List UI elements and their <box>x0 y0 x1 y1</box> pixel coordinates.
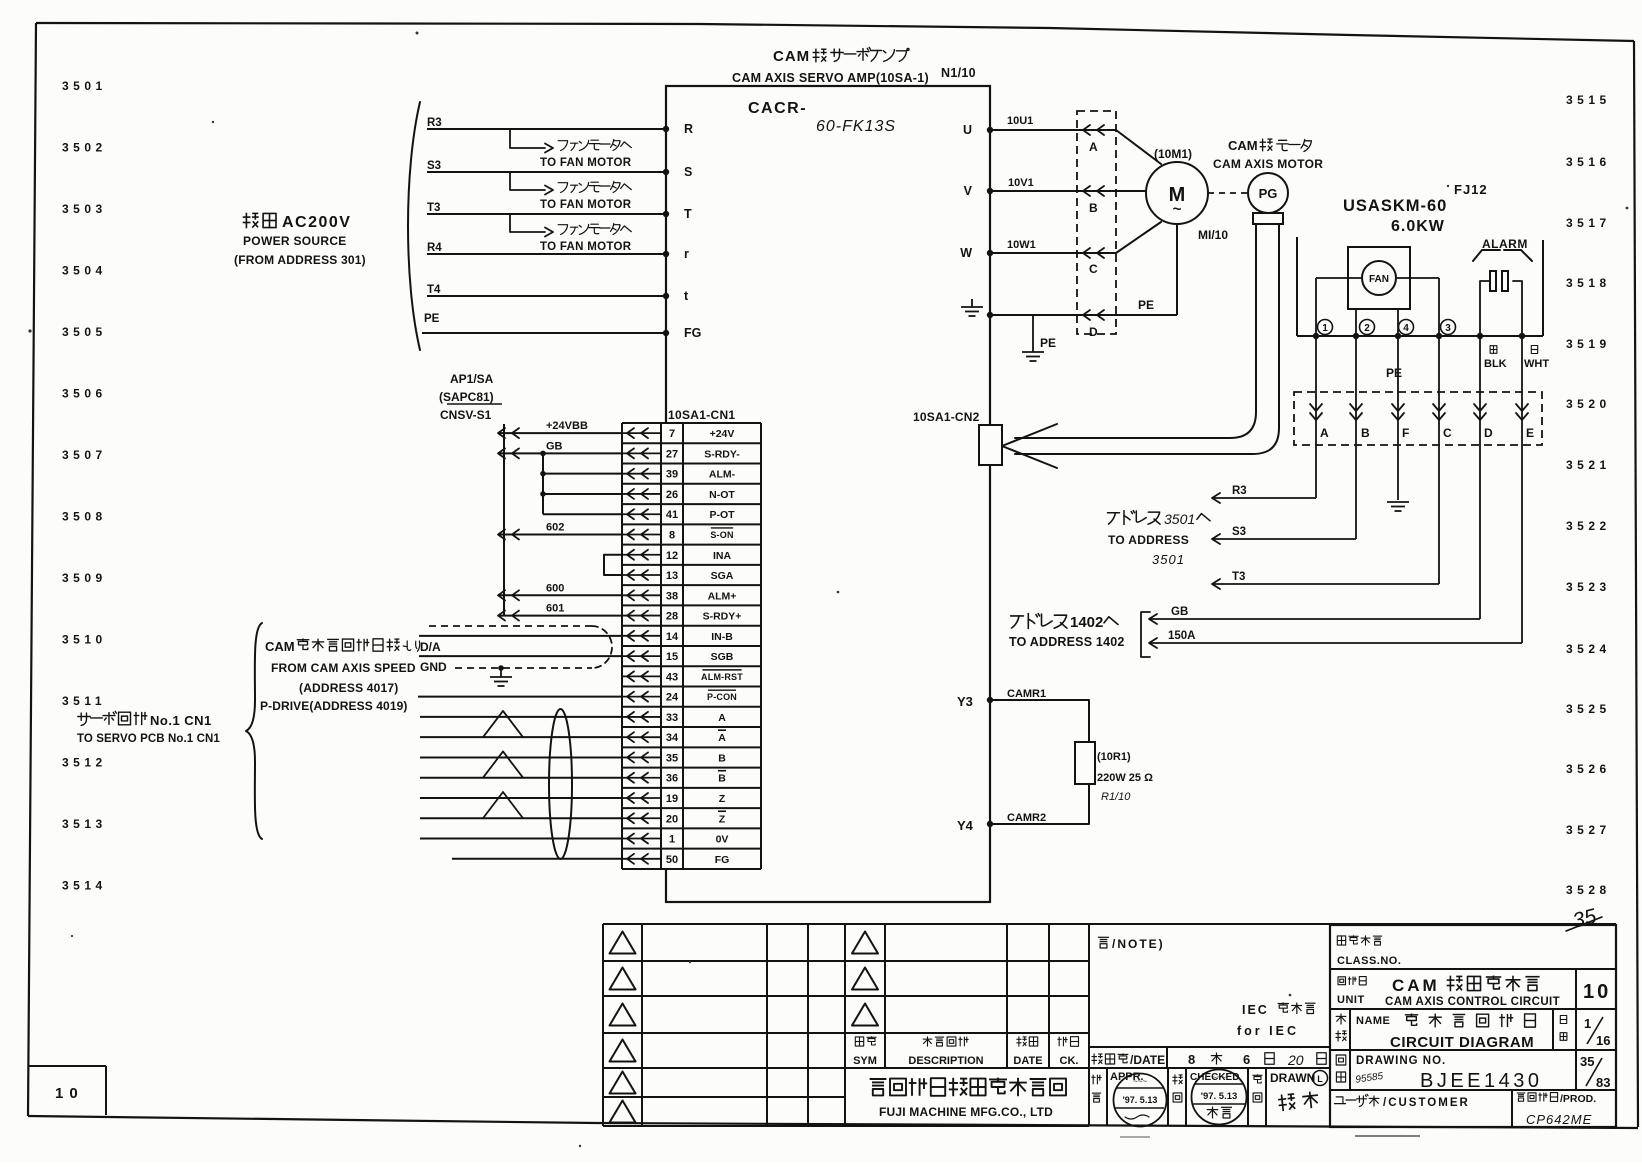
svg-text:1402: 1402 <box>1070 614 1103 631</box>
svg-text:PE: PE <box>1386 366 1402 380</box>
svg-text:P-CON: P-CON <box>707 692 737 702</box>
svg-text:T4: T4 <box>427 284 441 296</box>
svg-text:CAM: CAM <box>1228 138 1258 153</box>
svg-text:3501: 3501 <box>1152 552 1185 567</box>
svg-text:1: 1 <box>1584 1016 1591 1031</box>
svg-text:GB: GB <box>1171 606 1188 618</box>
svg-text:3501: 3501 <box>62 79 107 93</box>
svg-text:1: 1 <box>1322 323 1328 334</box>
svg-text:/CUSTOMER: /CUSTOMER <box>1383 1097 1470 1109</box>
svg-text:DESCRIPTION: DESCRIPTION <box>908 1055 983 1067</box>
svg-text:UNIT: UNIT <box>1337 994 1365 1006</box>
svg-text:IN-B: IN-B <box>711 631 733 643</box>
svg-text:B: B <box>718 752 726 764</box>
svg-text:50: 50 <box>666 854 678 866</box>
svg-text:15: 15 <box>666 651 678 663</box>
svg-text:8: 8 <box>669 529 675 541</box>
svg-text:150A: 150A <box>1168 630 1196 642</box>
svg-text:1: 1 <box>669 834 675 846</box>
svg-text:L: L <box>1317 1074 1323 1084</box>
svg-text:(10R1): (10R1) <box>1097 751 1131 763</box>
svg-text:INA: INA <box>713 550 732 562</box>
svg-text:DRAWN: DRAWN <box>1270 1071 1315 1085</box>
svg-text:D/A: D/A <box>420 640 441 654</box>
svg-text:28: 28 <box>666 611 678 623</box>
svg-text:N1/10: N1/10 <box>941 66 976 80</box>
svg-text:B: B <box>718 773 726 785</box>
svg-text:R: R <box>684 122 693 136</box>
svg-text:CAM AXIS CONTROL CIRCUIT: CAM AXIS CONTROL CIRCUIT <box>1385 996 1560 1008</box>
svg-text:/DATE: /DATE <box>1130 1053 1165 1067</box>
svg-text:PE: PE <box>424 313 440 325</box>
svg-text:R3: R3 <box>1232 485 1247 497</box>
svg-text:S-RDY-: S-RDY- <box>704 448 740 460</box>
svg-text:R1/10: R1/10 <box>1101 791 1131 803</box>
svg-text:3521: 3521 <box>1566 458 1611 472</box>
svg-text:+24VBB: +24VBB <box>546 420 588 432</box>
svg-text:+24V: +24V <box>710 428 735 440</box>
svg-text:38: 38 <box>666 590 678 602</box>
svg-text:T3: T3 <box>427 202 440 214</box>
svg-text:14: 14 <box>666 631 679 643</box>
svg-text:3: 3 <box>1445 323 1451 334</box>
svg-text:~~~: ~~~ <box>1133 1077 1147 1086</box>
svg-text:0V: 0V <box>716 834 729 846</box>
svg-text:Y4: Y4 <box>957 818 974 833</box>
svg-text:27: 27 <box>666 448 678 460</box>
svg-text:3524: 3524 <box>1566 642 1611 656</box>
svg-text:/PROD.: /PROD. <box>1560 1093 1596 1105</box>
svg-text:10SA1-CN2: 10SA1-CN2 <box>913 410 980 424</box>
svg-text:AP1/SA: AP1/SA <box>450 372 494 386</box>
svg-text:ALM+: ALM+ <box>708 590 737 602</box>
svg-text:ALARM: ALARM <box>1482 237 1528 251</box>
svg-text:33: 33 <box>666 712 678 724</box>
svg-text:35: 35 <box>666 752 678 764</box>
svg-text:7: 7 <box>669 428 675 440</box>
svg-text:WHT: WHT <box>1524 358 1549 370</box>
svg-text:10U1: 10U1 <box>1007 115 1033 127</box>
svg-text:3526: 3526 <box>1566 762 1611 776</box>
svg-text:SGA: SGA <box>711 570 734 582</box>
svg-text:39: 39 <box>666 469 678 481</box>
svg-text:B: B <box>1361 426 1370 440</box>
svg-text:'97. 5.13: '97. 5.13 <box>1123 1095 1158 1105</box>
svg-text:CK.: CK. <box>1060 1055 1079 1067</box>
svg-text:3522: 3522 <box>1566 519 1611 533</box>
svg-text:F: F <box>1402 426 1409 440</box>
svg-text:600: 600 <box>546 582 564 594</box>
svg-text:for IEC: for IEC <box>1237 1024 1299 1038</box>
svg-text:AC200V: AC200V <box>282 214 351 231</box>
svg-text:S-RDY+: S-RDY+ <box>703 611 742 623</box>
svg-text:16: 16 <box>1596 1033 1610 1048</box>
svg-text:601: 601 <box>546 603 564 615</box>
svg-text:(SAPC81): (SAPC81) <box>439 390 494 404</box>
svg-text:3510: 3510 <box>62 633 107 647</box>
svg-text:3501: 3501 <box>1164 511 1195 527</box>
svg-text:3503: 3503 <box>62 202 107 216</box>
svg-text:DRAWING NO.: DRAWING NO. <box>1356 1055 1446 1067</box>
svg-text:3516: 3516 <box>1566 155 1611 169</box>
svg-text:Y3: Y3 <box>957 694 973 709</box>
svg-text:FG: FG <box>715 854 730 866</box>
svg-text:POWER SOURCE: POWER SOURCE <box>243 234 347 248</box>
svg-text:'97. 5.13: '97. 5.13 <box>1201 1091 1238 1102</box>
svg-text:PE: PE <box>1138 298 1154 312</box>
svg-text:3506: 3506 <box>62 387 107 401</box>
svg-text:3507: 3507 <box>62 448 107 462</box>
svg-text:ALM-: ALM- <box>709 469 736 481</box>
svg-text:S: S <box>684 165 692 179</box>
svg-text:35: 35 <box>1580 1054 1594 1069</box>
svg-text:Z: Z <box>719 813 726 825</box>
svg-text:13: 13 <box>666 570 678 582</box>
svg-text:CLASS.NO.: CLASS.NO. <box>1337 955 1401 967</box>
svg-text:P-OT: P-OT <box>709 509 735 521</box>
svg-text:CAM AXIS MOTOR: CAM AXIS MOTOR <box>1213 157 1323 171</box>
svg-text:NAME: NAME <box>1356 1015 1390 1027</box>
svg-text:A: A <box>1320 426 1329 440</box>
svg-text:19: 19 <box>666 793 678 805</box>
svg-text:34: 34 <box>666 732 679 744</box>
svg-text:FUJI MACHINE MFG.CO., LTD: FUJI MACHINE MFG.CO., LTD <box>879 1105 1053 1119</box>
svg-text:3514: 3514 <box>62 879 107 893</box>
svg-text:3502: 3502 <box>62 141 107 155</box>
svg-text:60-FK13S: 60-FK13S <box>816 118 896 135</box>
svg-text:26: 26 <box>666 489 678 501</box>
svg-text:/NOTE): /NOTE) <box>1112 937 1165 951</box>
svg-text:CIRCUIT DIAGRAM: CIRCUIT DIAGRAM <box>1390 1034 1534 1051</box>
svg-text:C: C <box>1443 426 1452 440</box>
svg-text:3523: 3523 <box>1566 580 1611 594</box>
svg-text:FAN: FAN <box>1369 274 1389 285</box>
svg-text:D: D <box>1484 426 1493 440</box>
svg-text:36: 36 <box>666 773 678 785</box>
svg-text:3512: 3512 <box>62 756 107 770</box>
svg-text:FROM CAM AXIS SPEED: FROM CAM AXIS SPEED <box>271 661 416 675</box>
svg-text:3520: 3520 <box>1566 397 1611 411</box>
svg-text:2: 2 <box>1364 323 1370 334</box>
svg-text:GND: GND <box>420 660 447 674</box>
svg-text:CAMR2: CAMR2 <box>1007 812 1046 824</box>
svg-text:CP642ME: CP642ME <box>1526 1112 1592 1127</box>
svg-text:W: W <box>960 246 972 260</box>
svg-text:SGB: SGB <box>711 651 734 663</box>
svg-text:43: 43 <box>666 671 678 683</box>
svg-text:10W1: 10W1 <box>1007 239 1036 251</box>
svg-text:12: 12 <box>666 550 678 562</box>
svg-text:A: A <box>1089 140 1098 154</box>
svg-text:FJ12: FJ12 <box>1454 182 1488 197</box>
svg-text:(ADDRESS 4017): (ADDRESS 4017) <box>299 681 399 695</box>
svg-text:P-DRIVE(ADDRESS 4019): P-DRIVE(ADDRESS 4019) <box>260 699 407 713</box>
svg-text:3515: 3515 <box>1566 93 1611 107</box>
svg-text:ALM-RST: ALM-RST <box>701 672 743 682</box>
svg-text:3525: 3525 <box>1566 702 1611 716</box>
svg-text:3505: 3505 <box>62 325 107 339</box>
svg-text:DATE: DATE <box>1013 1055 1042 1067</box>
svg-text:No.1 CN1: No.1 CN1 <box>150 713 212 728</box>
svg-text:R3: R3 <box>427 117 442 129</box>
svg-text:A: A <box>718 732 726 744</box>
svg-text:3518: 3518 <box>1566 276 1611 290</box>
svg-text:10V1: 10V1 <box>1008 177 1034 189</box>
svg-text:FG: FG <box>684 326 701 340</box>
svg-text:BJEE1430: BJEE1430 <box>1420 1070 1543 1092</box>
svg-text:TO ADDRESS: TO ADDRESS <box>1108 533 1189 547</box>
svg-text:TO FAN MOTOR: TO FAN MOTOR <box>540 241 632 253</box>
svg-text:CAM: CAM <box>773 48 810 65</box>
svg-text:(10M1): (10M1) <box>1154 147 1192 161</box>
svg-text:PG: PG <box>1259 186 1278 201</box>
svg-text:CACR-: CACR- <box>748 100 807 117</box>
svg-text:10SA1-CN1: 10SA1-CN1 <box>668 408 735 422</box>
svg-text:PE: PE <box>1040 336 1056 350</box>
svg-text:TO FAN MOTOR: TO FAN MOTOR <box>540 157 632 169</box>
svg-text:3519: 3519 <box>1566 337 1611 351</box>
svg-text:~~~: ~~~ <box>1212 1073 1226 1082</box>
svg-text:S3: S3 <box>1232 526 1246 538</box>
svg-text:3527: 3527 <box>1566 823 1611 837</box>
svg-text:3511: 3511 <box>62 694 106 708</box>
svg-text:Z: Z <box>719 793 726 805</box>
svg-text:3517: 3517 <box>1566 216 1611 230</box>
svg-text:20: 20 <box>1287 1052 1304 1068</box>
svg-text:20: 20 <box>666 813 678 825</box>
svg-text:CAM: CAM <box>1392 976 1440 995</box>
svg-text:C: C <box>1089 262 1098 276</box>
svg-text:83: 83 <box>1596 1075 1610 1090</box>
svg-text:USASKM-60: USASKM-60 <box>1343 197 1447 215</box>
svg-text:10: 10 <box>1583 981 1611 1003</box>
svg-text:T: T <box>684 207 692 221</box>
svg-text:4: 4 <box>1403 323 1409 334</box>
svg-text:8: 8 <box>1188 1052 1195 1067</box>
svg-text:3509: 3509 <box>62 571 107 585</box>
svg-text:TO ADDRESS 1402: TO ADDRESS 1402 <box>1009 635 1125 649</box>
svg-text:B: B <box>1089 201 1098 215</box>
svg-text:A: A <box>718 712 726 724</box>
svg-text:U: U <box>963 123 972 137</box>
svg-text:E: E <box>1526 426 1534 440</box>
svg-text:CAMR1: CAMR1 <box>1007 688 1046 700</box>
svg-text:220W 25 Ω: 220W 25 Ω <box>1097 772 1153 784</box>
svg-text:24: 24 <box>666 692 679 704</box>
svg-text:S3: S3 <box>427 160 441 172</box>
svg-text:V: V <box>964 184 973 198</box>
svg-text:602: 602 <box>546 521 564 533</box>
svg-text:IEC: IEC <box>1242 1003 1269 1017</box>
svg-text:SYM: SYM <box>853 1055 877 1067</box>
svg-text:~: ~ <box>1173 201 1182 218</box>
svg-text:CNSV-S1: CNSV-S1 <box>440 408 492 422</box>
svg-text:CAM AXIS SERVO AMP(10SA-1): CAM AXIS SERVO AMP(10SA-1) <box>732 71 929 85</box>
svg-text:T3: T3 <box>1232 571 1245 583</box>
svg-text:3513: 3513 <box>62 817 107 831</box>
svg-text:3508: 3508 <box>62 510 107 524</box>
svg-text:6: 6 <box>1243 1052 1250 1067</box>
svg-text:10: 10 <box>55 1085 84 1102</box>
svg-text:6.0KW: 6.0KW <box>1391 218 1445 235</box>
svg-text:3504: 3504 <box>62 264 107 278</box>
svg-text:TO FAN MOTOR: TO FAN MOTOR <box>540 199 632 211</box>
svg-text:41: 41 <box>666 509 678 521</box>
svg-text:N-OT: N-OT <box>709 489 735 501</box>
svg-text:(FROM ADDRESS 301): (FROM ADDRESS 301) <box>234 253 366 267</box>
svg-text:GB: GB <box>546 440 563 452</box>
svg-text:MI/10: MI/10 <box>1198 228 1228 242</box>
svg-text:TO SERVO PCB No.1 CN1: TO SERVO PCB No.1 CN1 <box>77 733 220 745</box>
svg-text:r: r <box>684 247 689 261</box>
svg-text:S-ON: S-ON <box>710 530 733 540</box>
svg-text:3528: 3528 <box>1566 883 1611 897</box>
svg-text:CAM: CAM <box>265 639 295 654</box>
svg-text:R4: R4 <box>427 242 442 254</box>
svg-text:D: D <box>1089 325 1098 339</box>
svg-text:BLK: BLK <box>1484 358 1507 370</box>
